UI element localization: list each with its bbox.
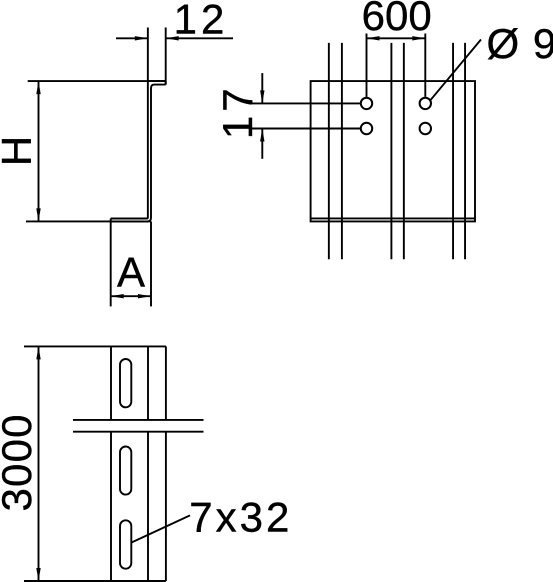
12 extension line left [147,28,149,82]
H top extension line [28,80,166,82]
hole top-right [420,98,431,109]
A dimension line [111,295,151,297]
profile front face rectangle [311,81,475,221]
H dimension line [38,81,40,221]
svg-text:17: 17 [214,84,261,139]
profile outer contour (lip top, web left face, flange top) [111,81,166,218]
svg-text:3000: 3000 [0,413,40,511]
rung 1 left line [328,43,330,259]
rung 2 right line [403,43,405,259]
17 dimension line lower segment [261,129,263,159]
diameter leader line [430,40,481,101]
A extension line right [150,221,152,306]
3000 arrow up [36,346,40,359]
12 dimension line left segment [116,37,148,39]
strip middle fold line upper segment [147,346,149,420]
svg-text:7x32: 7x32 [189,494,292,541]
17 arrow down-pointing [260,90,264,103]
rung 3 left line [452,43,454,259]
strip middle fold line lower segment [147,432,149,581]
3000 arrow down [36,568,40,581]
hole bottom-left [361,123,372,134]
600 extension line right [424,34,426,97]
strip top edge + 3000 top extension line [24,345,166,347]
strip left edge lower segment [110,432,112,581]
strip bottom edge + 3000 bottom extension line [24,580,166,582]
rung 3 right line [464,43,466,259]
17 upper extension line [249,102,360,104]
hole top-left [361,98,372,109]
600 arrow left-pointing [367,36,380,40]
flange fold line [311,217,475,219]
600 arrow right-pointing [412,36,425,40]
H dim arrow down [36,208,40,221]
17 dimension line upper segment [261,73,263,103]
12 arrow left-pointing [166,36,179,40]
rung 1 right line [341,43,343,259]
H dim arrow up [36,81,40,94]
lip end cap [165,81,167,85]
svg-text:Ø 9: Ø 9 [487,20,553,67]
strip right edge lower segment [165,432,167,581]
H bottom extension line [26,220,151,222]
svg-text:H: H [0,136,40,166]
svg-text:12: 12 [174,0,229,43]
12 arrow right-pointing [135,36,148,40]
3000 dimension line [38,346,40,581]
A extension line left [110,221,112,306]
crossing rung bottom line [73,431,204,433]
svg-text:600: 600 [362,0,432,39]
slot leader line [132,515,191,542]
svg-text:A: A [117,249,145,296]
A arrow right-pointing [138,294,151,298]
slot 1 [120,359,131,407]
17 arrow up-pointing [260,129,264,142]
12 dimension line right segment [166,37,233,39]
strip left edge upper segment [110,346,112,420]
profile inner contour (lip bottom, web right face, flange bottom) [111,85,166,222]
12 extension line right [165,28,167,85]
600 dimension line [367,37,426,39]
strip right edge upper segment [165,346,167,420]
flange end cap [110,219,112,222]
A arrow left-pointing [111,294,124,298]
rung 2 left line [390,43,392,259]
17 lower extension line [249,128,360,130]
hole bottom-right [420,123,431,134]
600 extension line left [366,34,368,97]
crossing rung top line [73,419,204,421]
slot 2 [120,447,131,495]
slot 3 [120,520,131,568]
